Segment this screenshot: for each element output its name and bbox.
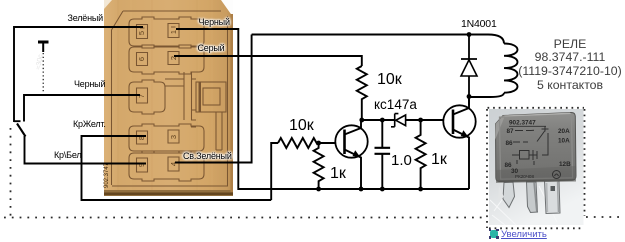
svg-text:РК20Ч08: РК20Ч08 xyxy=(515,174,534,179)
svg-text:12В: 12В xyxy=(559,161,571,168)
svg-text:902.3747: 902.3747 xyxy=(104,162,110,188)
svg-text:87: 87 xyxy=(507,128,515,135)
svg-text:5: 5 xyxy=(137,31,146,35)
svg-text:902.3747: 902.3747 xyxy=(509,120,536,127)
svg-text:3: 3 xyxy=(169,135,178,139)
svg-text:20A: 20A xyxy=(558,128,570,135)
svg-text:1: 1 xyxy=(169,30,178,34)
svg-text:6: 6 xyxy=(137,57,146,61)
svg-text:10A: 10A xyxy=(558,138,570,145)
svg-text:86: 86 xyxy=(506,140,514,147)
